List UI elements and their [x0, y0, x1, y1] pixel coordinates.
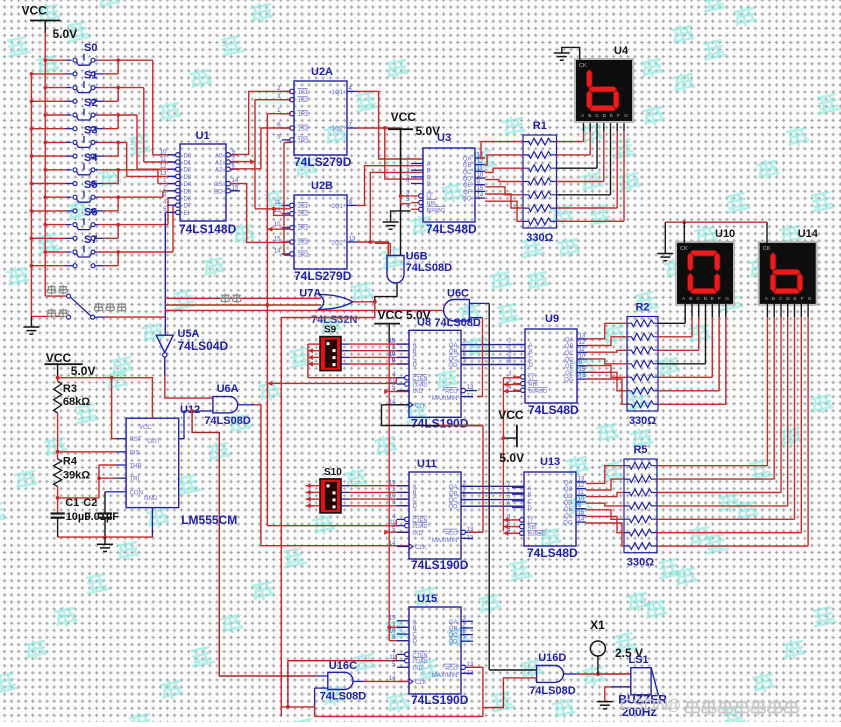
- svg-text:QD: QD: [565, 358, 575, 364]
- svg-text:B: B: [529, 350, 533, 356]
- svg-text:CK: CK: [579, 63, 587, 69]
- svg-text:11: 11: [579, 347, 586, 353]
- svg-text:1S3: 1S3: [298, 127, 309, 133]
- svg-text:DIS: DIS: [130, 450, 140, 456]
- svg-text:10: 10: [389, 494, 396, 500]
- svg-text:15: 15: [389, 615, 396, 621]
- svg-text:EO: EO: [214, 189, 223, 195]
- svg-text:MAX/MIN: MAX/MIN: [432, 538, 458, 544]
- svg-text:D3: D3: [184, 175, 192, 181]
- svg-text:QB: QB: [449, 350, 458, 356]
- svg-text:13: 13: [467, 385, 474, 391]
- svg-text:QA: QA: [564, 480, 573, 486]
- svg-text:1Q1: 1Q1: [332, 90, 344, 96]
- svg-text:QE: QE: [463, 183, 472, 189]
- svg-text:QE: QE: [565, 364, 574, 370]
- svg-text:74LS190D: 74LS190D: [411, 416, 469, 430]
- svg-text:74LS08D: 74LS08D: [320, 691, 367, 703]
- svg-text:11: 11: [160, 157, 167, 163]
- svg-text:QB: QB: [564, 487, 573, 493]
- svg-text:X1: X1: [590, 618, 605, 632]
- svg-text:S2: S2: [84, 97, 97, 109]
- svg-text:74LS190D: 74LS190D: [411, 693, 469, 707]
- svg-text:VCC: VCC: [498, 408, 524, 422]
- svg-text:RCO: RCO: [445, 531, 458, 537]
- svg-text:U2B: U2B: [311, 180, 333, 192]
- svg-text:1Q2: 1Q2: [332, 127, 344, 133]
- svg-text:D: D: [704, 296, 708, 302]
- svg-text:QF: QF: [564, 514, 573, 520]
- svg-text:A1: A1: [215, 161, 223, 167]
- svg-text:QE: QE: [564, 507, 573, 513]
- svg-text:D: D: [413, 504, 418, 510]
- svg-text:5.0V: 5.0V: [499, 451, 524, 465]
- svg-text:2R2: 2R2: [298, 252, 310, 258]
- svg-text:74LS08D: 74LS08D: [406, 262, 453, 274]
- svg-text:B: B: [528, 493, 532, 499]
- svg-text:5.0V: 5.0V: [71, 364, 96, 378]
- svg-text:G: G: [725, 296, 729, 302]
- svg-text:QG: QG: [563, 521, 573, 527]
- svg-text:U11: U11: [417, 458, 437, 470]
- svg-text:11: 11: [578, 490, 585, 496]
- svg-text:CSDN: CSDN: [620, 695, 668, 714]
- svg-text:VCC: VCC: [139, 425, 152, 431]
- svg-text:F: F: [617, 113, 620, 119]
- svg-text:74LS48D: 74LS48D: [528, 403, 579, 417]
- svg-text:14: 14: [477, 193, 484, 199]
- svg-text:13: 13: [579, 333, 586, 339]
- svg-text:CTEN: CTEN: [413, 653, 428, 659]
- svg-text:1R2: 1R2: [298, 138, 310, 144]
- svg-text:BI/RBO: BI/RBO: [528, 532, 547, 538]
- svg-text:C: C: [779, 296, 783, 302]
- svg-text:BI/RBO: BI/RBO: [529, 389, 548, 395]
- svg-text:G: G: [808, 296, 812, 302]
- svg-text:C: C: [413, 498, 418, 504]
- svg-text:13: 13: [349, 237, 356, 243]
- svg-text:S4: S4: [84, 152, 98, 164]
- svg-text:A0: A0: [215, 153, 223, 159]
- svg-text:2Q1: 2Q1: [332, 204, 344, 210]
- svg-text:15: 15: [578, 510, 585, 516]
- svg-text:VCC: VCC: [22, 4, 48, 18]
- svg-text:RCO: RCO: [445, 666, 458, 672]
- svg-text:QD: QD: [449, 640, 459, 646]
- svg-text:13: 13: [578, 476, 585, 482]
- svg-text:E: E: [711, 296, 714, 302]
- svg-text:330Ω: 330Ω: [629, 415, 656, 427]
- svg-text:74LS08D: 74LS08D: [529, 685, 576, 697]
- svg-text:RCO: RCO: [445, 389, 458, 395]
- svg-text:U6A: U6A: [217, 383, 239, 395]
- svg-text:74LS48D: 74LS48D: [426, 222, 477, 236]
- svg-text:R4: R4: [63, 456, 78, 468]
- svg-text:QC: QC: [463, 170, 473, 176]
- svg-text:CLK: CLK: [415, 680, 427, 686]
- svg-text:VCC: VCC: [46, 351, 72, 365]
- svg-text:2S1: 2S1: [298, 204, 309, 210]
- svg-text:D: D: [786, 296, 790, 302]
- svg-text:A: A: [427, 162, 431, 168]
- svg-text:LOAD: LOAD: [413, 383, 428, 389]
- svg-text:D6: D6: [184, 197, 192, 203]
- svg-text:QD: QD: [449, 505, 459, 511]
- svg-text:D: D: [413, 363, 418, 369]
- svg-text:15: 15: [389, 339, 396, 345]
- svg-text:U16C: U16C: [329, 660, 357, 672]
- svg-text:S5: S5: [84, 179, 97, 191]
- svg-text:U4: U4: [614, 45, 629, 57]
- svg-text:12: 12: [477, 159, 484, 165]
- svg-text:39kΩ: 39kΩ: [63, 470, 90, 482]
- svg-text:A: A: [413, 619, 417, 625]
- svg-text:68kΩ: 68kΩ: [63, 396, 90, 408]
- svg-text:U3: U3: [437, 132, 451, 144]
- svg-text:1S1: 1S1: [298, 90, 309, 96]
- svg-text:B: B: [413, 491, 417, 497]
- svg-text:U13: U13: [540, 456, 560, 468]
- svg-text:LS1: LS1: [629, 654, 649, 666]
- svg-text:QF: QF: [565, 371, 574, 377]
- svg-text:QF: QF: [463, 190, 472, 196]
- svg-text:15: 15: [274, 237, 281, 243]
- svg-text:15: 15: [389, 480, 396, 486]
- svg-text:S1: S1: [84, 70, 97, 82]
- svg-text:12: 12: [578, 483, 585, 489]
- svg-text:R5: R5: [633, 444, 647, 456]
- svg-text:C: C: [413, 356, 418, 362]
- svg-text:74LS04D: 74LS04D: [178, 339, 229, 353]
- svg-text:QB: QB: [463, 163, 472, 169]
- svg-text:B: B: [427, 169, 431, 175]
- svg-text:QD: QD: [463, 177, 473, 183]
- svg-text:A: A: [413, 484, 417, 490]
- svg-text:R3: R3: [63, 383, 77, 395]
- svg-text:C: C: [413, 633, 418, 639]
- svg-text:CTEN: CTEN: [413, 376, 428, 382]
- svg-text:2S2: 2S2: [298, 212, 309, 218]
- svg-text:12: 12: [160, 164, 167, 170]
- svg-text:330Ω: 330Ω: [627, 557, 654, 569]
- svg-text:EI: EI: [184, 211, 190, 217]
- svg-text:U16D: U16D: [538, 652, 566, 664]
- svg-text:LOAD: LOAD: [413, 659, 428, 665]
- svg-text:C1: C1: [65, 497, 79, 509]
- svg-text:D: D: [413, 639, 418, 645]
- svg-text:U2A: U2A: [311, 66, 333, 78]
- svg-text:U/D: U/D: [413, 531, 424, 537]
- svg-text:2S3: 2S3: [298, 241, 309, 247]
- svg-text:10: 10: [274, 222, 281, 228]
- svg-text:10: 10: [579, 354, 586, 360]
- svg-text:14: 14: [578, 517, 585, 523]
- svg-text:74LS48D: 74LS48D: [527, 546, 578, 560]
- svg-text:C: C: [528, 499, 533, 505]
- svg-text:BI/RBO: BI/RBO: [427, 208, 446, 214]
- svg-text:B: B: [413, 626, 417, 632]
- svg-text:14: 14: [389, 541, 396, 547]
- svg-text:S7: S7: [84, 234, 97, 246]
- svg-text:S10: S10: [324, 467, 342, 478]
- svg-text:D: D: [427, 182, 432, 188]
- svg-text:VCC: VCC: [391, 110, 417, 124]
- svg-text:F: F: [801, 296, 804, 302]
- svg-text:QA: QA: [449, 485, 458, 491]
- svg-text:OUT: OUT: [147, 439, 160, 445]
- svg-text:13: 13: [160, 171, 167, 177]
- svg-text:D: D: [603, 113, 607, 119]
- svg-text:MAX/MIN: MAX/MIN: [432, 673, 458, 679]
- svg-text:11: 11: [477, 166, 484, 172]
- svg-text:B: B: [588, 113, 591, 119]
- svg-text:U8: U8: [417, 316, 431, 328]
- svg-text:E: E: [794, 296, 797, 302]
- svg-text:12: 12: [579, 340, 586, 346]
- svg-text:QG: QG: [564, 378, 574, 384]
- svg-text:0.01µF: 0.01µF: [85, 511, 120, 523]
- svg-text:CLK: CLK: [415, 403, 427, 409]
- svg-text:10: 10: [389, 629, 396, 635]
- svg-text:74LS08D: 74LS08D: [204, 415, 251, 427]
- svg-text:D: D: [528, 506, 533, 512]
- svg-text:D0: D0: [184, 153, 192, 159]
- svg-text:74LS148D: 74LS148D: [179, 222, 237, 236]
- svg-text:QA: QA: [463, 156, 472, 162]
- svg-text:LOAD: LOAD: [413, 524, 428, 530]
- svg-text:QC: QC: [449, 356, 459, 362]
- svg-text:A: A: [528, 486, 532, 492]
- svg-text:G: G: [624, 113, 628, 119]
- svg-text:U12: U12: [180, 404, 200, 416]
- svg-text:VCC: VCC: [378, 308, 404, 322]
- svg-text:MAX/MIN: MAX/MIN: [432, 396, 458, 402]
- svg-text:U1: U1: [196, 130, 210, 142]
- svg-text:QD: QD: [449, 363, 459, 369]
- svg-text:A2: A2: [215, 168, 223, 174]
- svg-text:QA: QA: [449, 343, 458, 349]
- svg-text:15: 15: [579, 367, 586, 373]
- svg-text:74LS279D: 74LS279D: [294, 155, 352, 169]
- svg-text:A: A: [529, 343, 533, 349]
- svg-text:D1: D1: [184, 161, 192, 167]
- svg-text:C: C: [529, 356, 534, 362]
- svg-text:D4: D4: [184, 182, 192, 188]
- svg-text:10: 10: [389, 352, 396, 358]
- svg-text:14: 14: [579, 374, 586, 380]
- svg-text:B: B: [413, 349, 417, 355]
- svg-text:S0: S0: [84, 42, 97, 54]
- svg-text:D2: D2: [184, 168, 192, 174]
- svg-text:C2: C2: [83, 497, 97, 509]
- svg-text:C: C: [427, 175, 432, 181]
- svg-text:QA: QA: [449, 620, 458, 626]
- svg-text:10: 10: [578, 497, 585, 503]
- svg-text:15: 15: [477, 186, 484, 192]
- svg-text:U15: U15: [417, 593, 437, 605]
- svg-text:U6B: U6B: [406, 251, 428, 263]
- svg-text:E: E: [610, 113, 613, 119]
- svg-text:CLK: CLK: [415, 545, 427, 551]
- svg-text:10: 10: [160, 149, 167, 155]
- svg-text:74LS279D: 74LS279D: [294, 269, 352, 283]
- svg-text:QB: QB: [449, 626, 458, 632]
- svg-text:D: D: [529, 363, 534, 369]
- svg-text:S3: S3: [84, 124, 97, 136]
- svg-text:B: B: [689, 296, 692, 302]
- svg-text:QC: QC: [449, 498, 459, 504]
- svg-text:GS: GS: [214, 182, 223, 188]
- svg-text:U9: U9: [545, 313, 559, 325]
- svg-text:QG: QG: [462, 197, 472, 203]
- svg-text:LM555CM: LM555CM: [181, 513, 237, 527]
- svg-text:A: A: [413, 343, 417, 349]
- svg-text:U/D: U/D: [413, 389, 424, 395]
- svg-text:14: 14: [274, 248, 281, 254]
- svg-text:CTEN: CTEN: [413, 518, 428, 524]
- svg-text:1R1: 1R1: [298, 112, 310, 118]
- svg-text:QB: QB: [449, 491, 458, 497]
- svg-text:U6C: U6C: [447, 288, 469, 300]
- svg-text:B: B: [772, 296, 775, 302]
- svg-text:S9: S9: [324, 325, 337, 336]
- svg-text:TRI: TRI: [130, 477, 140, 483]
- svg-text:U10: U10: [715, 228, 735, 240]
- svg-text:11: 11: [274, 200, 281, 206]
- svg-text:F: F: [718, 296, 721, 302]
- svg-text:D5: D5: [184, 189, 192, 195]
- svg-text:2R1: 2R1: [298, 226, 310, 232]
- svg-text:RST: RST: [130, 437, 142, 443]
- svg-text:10: 10: [477, 173, 484, 179]
- svg-text:CK: CK: [680, 246, 688, 252]
- svg-text:C: C: [696, 296, 700, 302]
- svg-text:R2: R2: [635, 302, 649, 314]
- svg-text:330Ω: 330Ω: [526, 232, 553, 244]
- svg-text:5.0V: 5.0V: [53, 27, 78, 41]
- svg-text:D7: D7: [184, 204, 192, 210]
- svg-text:@: @: [666, 697, 681, 714]
- svg-text:QC: QC: [564, 494, 574, 500]
- svg-text:C: C: [595, 113, 599, 119]
- svg-text:QC: QC: [565, 351, 575, 357]
- svg-text:S6: S6: [84, 207, 97, 219]
- svg-text:U14: U14: [798, 228, 819, 240]
- svg-text:74LS190D: 74LS190D: [411, 558, 469, 572]
- svg-text:CK: CK: [763, 246, 771, 252]
- svg-text:2Q2: 2Q2: [332, 241, 344, 247]
- svg-text:1S2: 1S2: [298, 98, 309, 104]
- svg-text:QB: QB: [565, 344, 574, 350]
- svg-text:THR: THR: [130, 464, 143, 470]
- svg-text:QD: QD: [564, 501, 574, 507]
- svg-text:QA: QA: [565, 337, 574, 343]
- svg-text:R1: R1: [533, 120, 547, 132]
- svg-text:74LS08D: 74LS08D: [434, 317, 481, 329]
- svg-text:QC: QC: [449, 633, 459, 639]
- svg-text:U/D: U/D: [413, 666, 424, 672]
- svg-text:CON: CON: [130, 490, 143, 496]
- svg-text:GND: GND: [144, 496, 158, 502]
